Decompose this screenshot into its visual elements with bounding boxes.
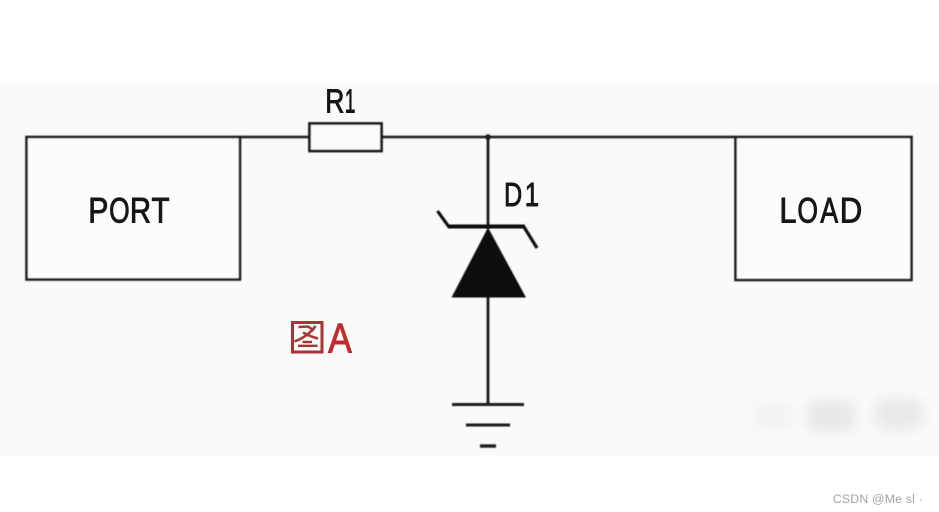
svg-text:CSDN @Me sl ·: CSDN @Me sl ·: [833, 492, 923, 506]
label D1: [504, 177, 539, 214]
label R1: [325, 83, 355, 120]
svg-text:L: L: [779, 191, 796, 230]
svg-text:A: A: [820, 191, 838, 230]
ground: [452, 405, 524, 447]
wire: D1 to ground: [487, 296, 490, 404]
schematic image band: [0, 83, 939, 456]
faint blurred watermark blob middle: [806, 400, 856, 432]
resistor R1: [310, 124, 382, 152]
svg-text:D: D: [840, 192, 862, 231]
svg-text:T: T: [152, 191, 170, 230]
svg-text:O: O: [797, 191, 818, 230]
svg-text:1: 1: [345, 83, 356, 120]
wire: junction down to D1: [487, 137, 490, 229]
diode D1 (TVS): [438, 211, 538, 298]
node junction dot: [485, 134, 490, 139]
wire: R1 to LOAD: [381, 136, 736, 139]
label LOAD: [779, 191, 862, 231]
svg-text:R: R: [325, 84, 344, 120]
svg-text:R: R: [130, 191, 151, 230]
svg-text:O: O: [109, 191, 130, 231]
svg-text:P: P: [88, 190, 108, 230]
faint blurred watermark blob right: [874, 398, 924, 430]
wire: PORT to R1: [239, 136, 310, 139]
box PORT: [27, 137, 241, 280]
svg-text:1: 1: [525, 177, 539, 214]
svg-text:A: A: [328, 316, 352, 363]
svg-text:D: D: [504, 177, 522, 214]
faint blurred watermark blob left: [752, 402, 796, 430]
label 图A (red figure label) : 图 drawn as strokes: [293, 323, 323, 353]
box LOAD: [736, 137, 912, 280]
label PORT: [88, 190, 169, 230]
